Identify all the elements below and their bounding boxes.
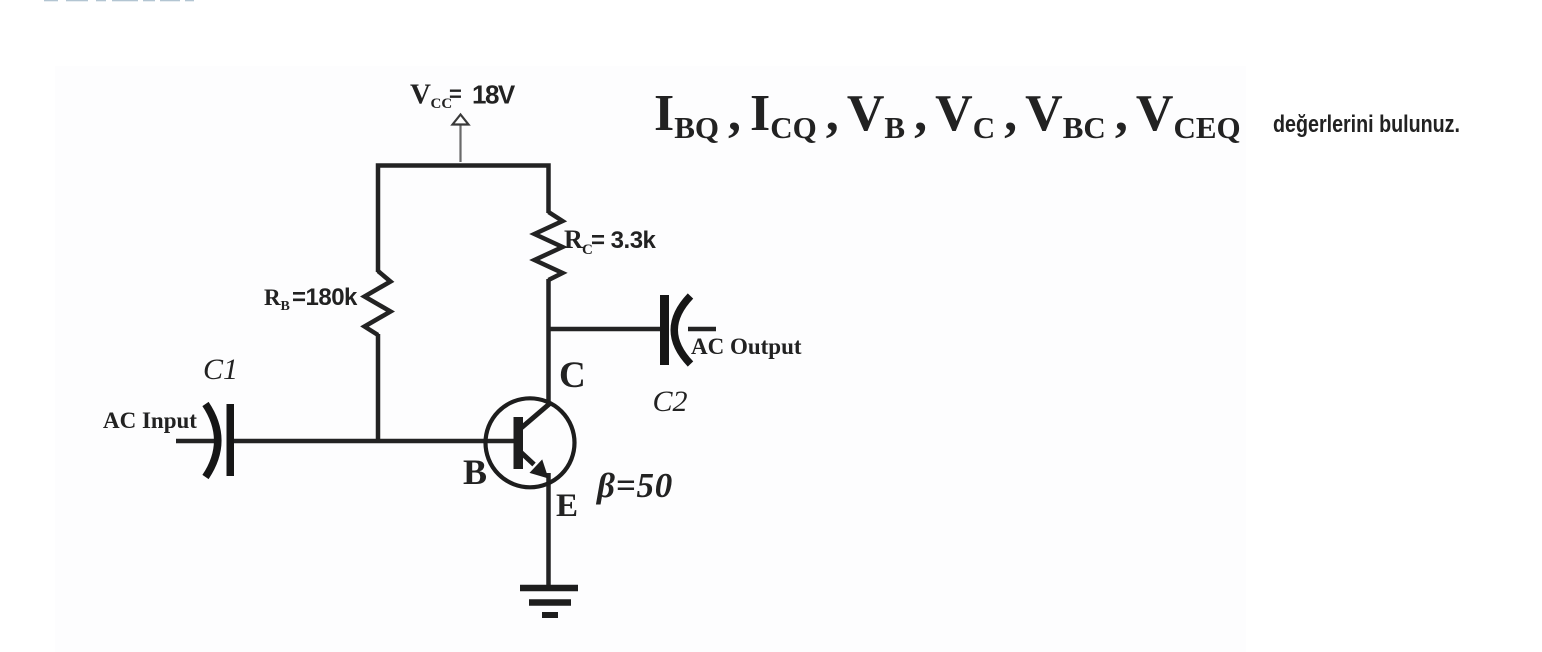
- svg-text:B: B: [281, 299, 290, 314]
- svg-text:R: R: [264, 285, 281, 310]
- svg-text:=: =: [449, 82, 462, 107]
- svg-text:C1: C1: [203, 353, 238, 386]
- svg-text:C2: C2: [653, 385, 688, 418]
- svg-text:E: E: [556, 488, 578, 524]
- svg-text:18V: 18V: [472, 80, 516, 110]
- svg-text:=180k: =180k: [292, 284, 358, 311]
- svg-text:R: R: [564, 225, 583, 254]
- svg-text:B: B: [463, 452, 487, 492]
- svg-text:C: C: [559, 355, 586, 396]
- svg-text:β=50: β=50: [595, 466, 673, 505]
- svg-text:IBQ , ICQ , VB , VC , VBC , VC: IBQ , ICQ , VB , VC , VBC , VCEQ: [654, 85, 1241, 145]
- svg-text:= 3.3k: = 3.3k: [591, 227, 657, 254]
- svg-text:AC Output: AC Output: [691, 334, 802, 359]
- svg-text:V: V: [410, 79, 431, 111]
- svg-text:AC Input: AC Input: [103, 408, 197, 433]
- svg-text:değerlerini bulunuz.: değerlerini bulunuz.: [1273, 111, 1460, 138]
